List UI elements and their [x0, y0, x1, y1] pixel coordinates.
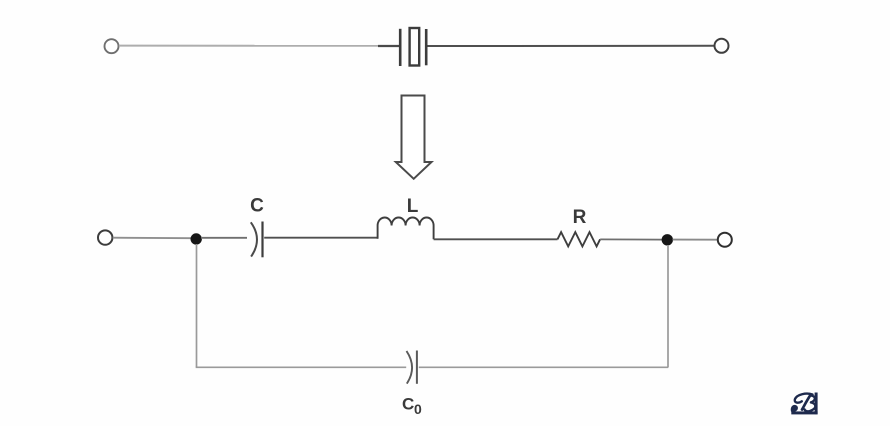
wire: top-left lead (light) — [119, 45, 378, 47]
wire: top-right lead — [428, 45, 715, 47]
capacitor C0 (shunt capacitance) — [407, 351, 417, 384]
inductor L (series motional inductance) — [378, 218, 434, 240]
svg-text:C: C — [402, 394, 414, 413]
svg-text:L: L — [407, 196, 419, 217]
wire: node A to capacitor C — [201, 237, 247, 239]
wire: bottom rail right of C0 — [419, 366, 668, 368]
terminal: top-left input — [105, 39, 119, 53]
terminal: top-right output — [715, 39, 729, 53]
junction node B — [662, 234, 673, 245]
capacitor C (series motional capacitance) — [251, 222, 263, 258]
svg-text:R: R — [573, 207, 587, 228]
junction node A — [191, 233, 202, 244]
wire: stub into crystal — [378, 45, 399, 47]
wire: node B to bottom-right terminal — [673, 239, 718, 241]
wire: inductor L to resistor R — [434, 238, 558, 240]
wire: bottom-left lead to node A — [113, 237, 192, 240]
wire: resistor R to node B — [600, 238, 662, 240]
svg-text:C: C — [250, 196, 264, 217]
wire: bottom rail left of C0 — [196, 366, 407, 368]
svg-text:0: 0 — [414, 401, 422, 417]
resistor R (series motional resistance) — [558, 232, 601, 246]
wire: right shunt vertical (node B down) — [667, 245, 669, 367]
wire: capacitor C to inductor L — [264, 237, 377, 239]
wire: left shunt vertical (node A down) — [196, 244, 198, 367]
crystal Y1 — [400, 28, 426, 66]
terminal: bottom-right output — [718, 233, 732, 247]
terminal: bottom-left input — [98, 230, 112, 244]
logo: script-B watermark — [791, 393, 818, 415]
arrow: equivalence (transforms-to) symbol — [396, 96, 432, 179]
